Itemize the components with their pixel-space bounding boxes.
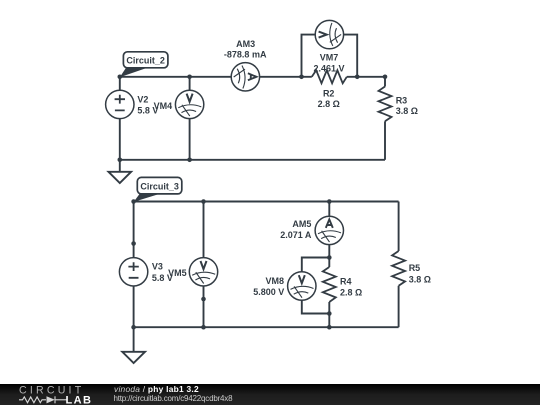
- svg-text:vinoda / phy lab1 3.2: vinoda / phy lab1 3.2: [114, 384, 199, 394]
- node VM4 top: [187, 75, 192, 80]
- node bottom-left circuit3: [131, 325, 136, 330]
- node top-right corner: [383, 75, 388, 80]
- wire bottom rail circuit 2: [120, 159, 385, 161]
- svg-text:LAB: LAB: [66, 394, 93, 405]
- wire VM5 branch bottom: [203, 286, 205, 327]
- svg-text:3.8 Ω: 3.8 Ω: [409, 275, 431, 285]
- svg-text:VM7: VM7: [320, 52, 339, 62]
- wire right branch top: [398, 202, 400, 252]
- node AM5 top: [327, 199, 332, 204]
- wire top-left segment (node A to AM3): [120, 76, 231, 78]
- resistor R4: [323, 267, 336, 302]
- node A: [118, 75, 123, 80]
- label bubble Circuit_2: [120, 52, 168, 77]
- node bottom-left: [118, 158, 123, 163]
- resistor R5: [392, 251, 405, 286]
- footer black bar: [0, 384, 540, 405]
- node V3 upper: [131, 241, 136, 246]
- node VM5 bottom: [201, 325, 206, 330]
- wire ground stub circuit 3: [133, 327, 135, 352]
- wire VM5 branch top: [203, 202, 205, 258]
- wire AM5 to R4: [328, 245, 330, 267]
- svg-text:VM4: VM4: [154, 101, 173, 111]
- node R2 left: [299, 75, 304, 80]
- wire bottom rail circuit 3: [134, 326, 399, 328]
- wire V3 branch bottom: [133, 286, 135, 327]
- voltage source V3: [119, 258, 147, 286]
- svg-text:R4: R4: [340, 277, 352, 287]
- svg-text:2.8 Ω: 2.8 Ω: [318, 99, 340, 109]
- wire R4 bottom: [328, 302, 330, 327]
- ground circuit 2: [109, 172, 132, 183]
- voltage source V2: [106, 90, 134, 118]
- node VM4 bottom: [187, 158, 192, 163]
- svg-text:3.8 Ω: 3.8 Ω: [396, 106, 418, 116]
- wire VM7 left leg: [302, 35, 316, 77]
- svg-text:V3: V3: [152, 261, 163, 271]
- svg-text:AM3: AM3: [236, 39, 255, 49]
- svg-text:Circuit_2: Circuit_2: [126, 56, 165, 66]
- ammeter AM5: [315, 216, 343, 244]
- node VM5 top: [201, 199, 206, 204]
- voltmeter VM8: [288, 272, 316, 300]
- node R4 bottom rail: [327, 325, 332, 330]
- resistor R2: [312, 70, 347, 83]
- wire VM4 branch bottom: [189, 119, 191, 160]
- wire V2 branch top: [119, 77, 121, 90]
- wire R3 bottom to bottom-right corner: [384, 121, 386, 160]
- svg-text:Circuit_3: Circuit_3: [140, 182, 179, 192]
- wire right branch bottom: [398, 286, 400, 327]
- wire VM7 right leg: [344, 35, 358, 77]
- node circuit3 top-left: [131, 199, 136, 204]
- wire AM5 branch top: [328, 202, 330, 217]
- svg-text:AM5: AM5: [292, 219, 311, 229]
- ground circuit 3: [122, 352, 145, 363]
- wire node C to top-right corner and down to R3: [347, 77, 385, 87]
- voltmeter VM5: [189, 258, 217, 286]
- node VM5 lower: [201, 297, 206, 302]
- wire top rail circuit 3: [134, 201, 399, 203]
- resistor R3: [379, 87, 392, 122]
- wire VM4 branch top: [189, 77, 191, 90]
- node VM8 bottom junction: [327, 311, 332, 316]
- svg-text:http://circuitlab.com/c9422qcd: http://circuitlab.com/c9422qcdbr4x8: [114, 394, 234, 403]
- wire V3 branch top: [133, 202, 135, 258]
- svg-text:R2: R2: [323, 88, 335, 98]
- label bubble Circuit_3: [134, 177, 182, 202]
- wire VM8 top leg: [302, 258, 330, 272]
- voltmeter VM7: [315, 20, 343, 48]
- svg-text:-878.8 mA: -878.8 mA: [224, 50, 267, 60]
- wire ground stub circuit 2: [119, 160, 121, 172]
- svg-text:VM5: VM5: [168, 268, 187, 278]
- svg-text:R3: R3: [396, 96, 408, 106]
- svg-text:V2: V2: [137, 94, 148, 104]
- node R2 right: [355, 75, 360, 80]
- ammeter AM3: [231, 63, 259, 91]
- logo resistor-diode symbol: [19, 396, 67, 403]
- svg-text:VM8: VM8: [265, 276, 284, 286]
- voltmeter VM4: [175, 90, 203, 118]
- logo diode triangle: [47, 396, 55, 403]
- svg-text:2.8 Ω: 2.8 Ω: [340, 287, 362, 297]
- node VM8 top junction: [327, 255, 332, 260]
- svg-text:2.461 V: 2.461 V: [313, 64, 344, 74]
- wire AM3 to node B: [260, 76, 312, 78]
- svg-text:5.800 V: 5.800 V: [253, 287, 284, 297]
- wire VM8 bottom leg: [302, 300, 330, 313]
- svg-text:2.071 A: 2.071 A: [280, 230, 312, 240]
- svg-text:R5: R5: [409, 263, 421, 273]
- wire V2 branch bottom: [119, 119, 121, 160]
